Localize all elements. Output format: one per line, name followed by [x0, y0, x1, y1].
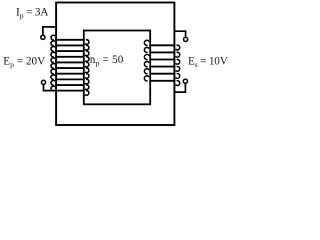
primary top lead — [43, 27, 56, 36]
primary top terminal — [41, 35, 45, 39]
svg-text:np = 50: np = 50 — [90, 54, 124, 68]
svg-text:Ep = 20V: Ep = 20V — [3, 55, 45, 69]
svg-text:Es = 10V: Es = 10V — [188, 55, 228, 69]
primary bottom lead (extends as last winding turn) — [44, 84, 85, 90]
primary winding right hooks — [85, 40, 89, 96]
secondary top terminal — [184, 37, 188, 41]
primary winding turn lines — [55, 40, 84, 85]
secondary winding left hooks — [144, 40, 149, 81]
core window inner rectangle — [84, 31, 150, 105]
secondary top lead — [174, 31, 185, 37]
primary winding left hooks — [51, 35, 55, 91]
svg-text:Ip = 3A: Ip = 3A — [16, 6, 48, 20]
primary bottom terminal — [41, 80, 45, 84]
secondary bottom terminal — [183, 79, 187, 83]
core outer frame — [56, 3, 174, 126]
secondary winding turn lines — [150, 45, 176, 81]
secondary winding right hooks — [176, 45, 180, 85]
secondary bottom lead — [174, 83, 185, 92]
